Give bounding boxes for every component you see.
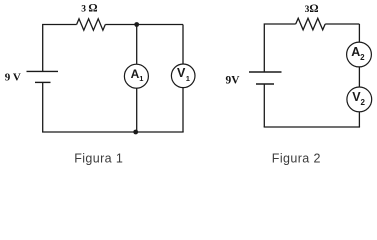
ammeter A1 (124, 64, 148, 88)
wire: fig2 bottom rail (264, 126, 360, 128)
node: fig1 bottom junction dot (133, 130, 138, 135)
voltmeter V2 (347, 87, 372, 112)
resistor R1 (3 Ω) (77, 19, 106, 30)
wire: fig2 right from voltmeter down to bottom rail (358, 112, 360, 127)
wire: V1 branch from top-right corner down to voltmeter (182, 25, 184, 65)
ammeter A2 (347, 42, 372, 67)
wire: fig2 right from corner down to ammeter (358, 24, 360, 42)
wire: fig2 top rail from resistor to top-right corner (325, 23, 359, 25)
wire: fig2 left from battery negative plate down to bottom rail (263, 85, 265, 128)
battery B1 (9 V) (27, 71, 59, 82)
wire: fig1 left+top from battery positive plate up and right to resistor (43, 25, 77, 72)
svg-text:V: V (177, 66, 186, 80)
battery B2 (9 V) (249, 72, 282, 84)
svg-text:1: 1 (139, 74, 143, 83)
wire: A1 branch from top rail down to ammeter (136, 25, 138, 65)
svg-text:A: A (351, 45, 360, 59)
svg-text:2: 2 (361, 98, 366, 107)
svg-text:3 Ω: 3 Ω (81, 3, 97, 15)
wire: fig1 left from battery negative plate down to bottom rail (42, 83, 44, 132)
svg-text:Figura 1: Figura 1 (74, 152, 123, 166)
svg-text:Figura 2: Figura 2 (272, 152, 321, 166)
wire: fig1 top rail from resistor to top-right corner (105, 24, 183, 26)
svg-text:2: 2 (360, 53, 365, 62)
resistor R2 (3 Ω) (296, 18, 326, 30)
wire: V1 branch from voltmeter down to bottom rail (182, 88, 184, 132)
svg-text:1: 1 (186, 74, 190, 83)
svg-text:3Ω: 3Ω (305, 3, 319, 15)
node: fig1 top junction dot (134, 22, 139, 27)
wire: A1 branch from ammeter down to bottom rail (136, 88, 138, 132)
wire: fig2 right between ammeter and voltmeter (358, 67, 360, 87)
svg-text:9 V: 9 V (5, 72, 21, 84)
wire: fig2 left+top from battery positive plate up and right to resistor (264, 24, 295, 72)
wire: fig1 bottom rail (42, 131, 184, 133)
voltmeter V1 (171, 64, 195, 88)
svg-text:9V: 9V (226, 74, 241, 86)
